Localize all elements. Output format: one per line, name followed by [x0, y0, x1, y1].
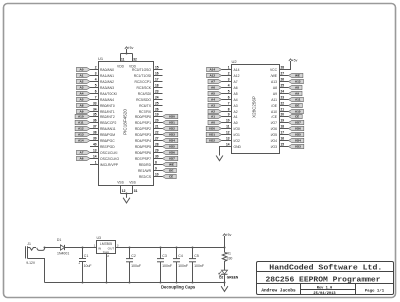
- capacitor C5 100nF: [189, 248, 204, 283]
- U1 pin 34 RB1/INT1 net A9: [77, 108, 115, 114]
- svg-text:A4: A4: [80, 92, 84, 96]
- U2 pin 15 I/O3 net I/O3: [271, 143, 304, 149]
- svg-text:RE2/CS: RE2/CS: [139, 175, 152, 179]
- svg-text:8: 8: [228, 108, 230, 112]
- svg-text:A7: A7: [211, 80, 215, 84]
- svg-text:RA5/AN4: RA5/AN4: [100, 98, 114, 102]
- svg-text:6: 6: [95, 90, 97, 94]
- U1 VSS pins 12/31 to ground: [121, 186, 138, 198]
- svg-text:28: 28: [281, 66, 285, 70]
- svg-text:GND: GND: [234, 145, 242, 149]
- U2 pin 4 A6 net A6: [208, 84, 238, 90]
- U2 pin 19 I/O7 net I/O7: [271, 119, 304, 125]
- svg-text:I/O7: I/O7: [295, 121, 301, 125]
- svg-text:C5: C5: [194, 254, 199, 258]
- svg-text:10uF: 10uF: [84, 264, 92, 268]
- title revision: [317, 286, 333, 290]
- svg-text:22: 22: [281, 102, 285, 106]
- svg-text:A4: A4: [211, 98, 215, 102]
- U1 pin 33 RB0/INT0 net A8: [77, 102, 115, 108]
- svg-text:R1: R1: [227, 251, 232, 255]
- title company name: [269, 264, 382, 272]
- note Decoupling Caps: [161, 285, 196, 290]
- IC U2 X28C256 EEPROM body: [232, 59, 280, 154]
- svg-text:A7: A7: [80, 151, 84, 155]
- svg-text:C1: C1: [84, 254, 89, 258]
- svg-text:A12: A12: [234, 74, 240, 78]
- svg-text:A9: A9: [295, 92, 299, 96]
- svg-text:I/O2: I/O2: [169, 127, 175, 131]
- svg-text:RC3/SCK: RC3/SCK: [137, 86, 152, 90]
- svg-text:I/O5: I/O5: [295, 133, 301, 137]
- svg-text:100uF: 100uF: [131, 264, 141, 268]
- U1 pin 37 RB4/AN11 net A12: [75, 125, 116, 131]
- svg-text:28C256 EEPROM Programmer: 28C256 EEPROM Programmer: [266, 277, 381, 285]
- svg-text:OE: OE: [295, 104, 299, 108]
- svg-text:39: 39: [93, 137, 97, 141]
- svg-text:29: 29: [155, 149, 159, 153]
- svg-text:A10: A10: [78, 115, 84, 119]
- svg-text:11: 11: [121, 57, 125, 61]
- svg-text:16: 16: [155, 72, 159, 76]
- ground symbol power rail: [221, 283, 228, 292]
- svg-text:I/O4: I/O4: [271, 139, 277, 143]
- svg-text:RD5/PSP5: RD5/PSP5: [135, 145, 151, 149]
- svg-text:D1: D1: [57, 238, 62, 242]
- U1 pin 28 RD5/PSP5 net I/O5: [135, 143, 178, 149]
- svg-text:19: 19: [155, 113, 159, 117]
- +5v symbol power rail: [223, 233, 232, 247]
- svg-text:A7: A7: [234, 80, 238, 84]
- U1 pin 38 RB5/PGM net A13: [75, 131, 115, 137]
- svg-text:RB7/PGD: RB7/PGD: [100, 145, 115, 149]
- svg-text:A8: A8: [273, 86, 277, 90]
- U2 pin 11 I/O0 net I/O0: [206, 125, 240, 131]
- svg-text:+5v: +5v: [292, 58, 298, 62]
- svg-text:A14: A14: [234, 68, 240, 72]
- bottom ground rail wire: [45, 282, 226, 284]
- svg-text:12: 12: [226, 131, 230, 135]
- svg-text:30: 30: [155, 155, 159, 159]
- svg-text:/CE: /CE: [271, 115, 277, 119]
- U2 pin 14 GND wire to ground: [220, 147, 232, 156]
- svg-text:4: 4: [95, 78, 97, 82]
- capacitor C2 100uF: [126, 248, 141, 283]
- +5v symbol above U2: [289, 58, 298, 62]
- svg-text:13: 13: [226, 137, 230, 141]
- U2 pin 17 I/O5 net I/O5: [271, 131, 304, 137]
- svg-text:Rev 1.0: Rev 1.0: [317, 286, 333, 290]
- svg-text:I/O1: I/O1: [234, 133, 240, 137]
- wire regulator Com to bottom rail: [106, 254, 108, 284]
- U1 pin 19 RD0/PSP0 net I/O0: [135, 113, 178, 119]
- svg-text:WE: WE: [295, 74, 300, 78]
- svg-text:3: 3: [228, 78, 230, 82]
- wire jack output to diode: [44, 247, 61, 249]
- svg-text:24: 24: [281, 90, 285, 94]
- svg-text:A11: A11: [271, 98, 277, 102]
- svg-text:RC1/T1OSI: RC1/T1OSI: [134, 74, 151, 78]
- svg-text:RB3/CCP2: RB3/CCP2: [100, 121, 116, 125]
- svg-text:A2: A2: [80, 80, 84, 84]
- svg-text:A4: A4: [234, 98, 238, 102]
- U2 pin 22 /OE net OE: [271, 102, 302, 108]
- U1 pin 39 RB6/PGC net A14: [75, 137, 115, 143]
- svg-text:5: 5: [228, 90, 230, 94]
- svg-text:A2: A2: [211, 110, 215, 114]
- svg-text:10: 10: [155, 173, 159, 177]
- svg-text:2: 2: [95, 66, 97, 70]
- svg-text:IN: IN: [98, 246, 101, 250]
- svg-text:RB4/AN11: RB4/AN11: [100, 127, 116, 131]
- svg-text:7: 7: [228, 102, 230, 106]
- svg-text:A10: A10: [271, 110, 277, 114]
- svg-text:A10: A10: [295, 110, 301, 114]
- svg-text:A9: A9: [80, 110, 84, 114]
- svg-text:A5: A5: [80, 98, 84, 102]
- svg-text:32: 32: [133, 57, 137, 61]
- svg-text:19: 19: [281, 119, 285, 123]
- svg-text:11: 11: [226, 125, 230, 129]
- svg-text:U2: U2: [232, 59, 238, 64]
- svg-text:20: 20: [281, 113, 285, 117]
- svg-text:3: 3: [95, 72, 97, 76]
- svg-text:12: 12: [122, 189, 126, 193]
- svg-text:RD0/PSP0: RD0/PSP0: [135, 115, 151, 119]
- svg-text:RA3/AN3: RA3/AN3: [100, 86, 114, 90]
- svg-text:I/O2: I/O2: [209, 139, 215, 143]
- junction C5 bottom: [192, 282, 194, 284]
- U2 pin 12 I/O1 net I/O1: [206, 131, 240, 137]
- svg-text:9: 9: [155, 167, 157, 171]
- title page: [365, 289, 385, 294]
- svg-text:OSC2/CLKO: OSC2/CLKO: [100, 157, 120, 161]
- svg-text:U3: U3: [97, 236, 102, 240]
- U2 pin 18 I/O6 net I/O6: [271, 125, 304, 131]
- U2 pin 14 GND: [226, 143, 242, 149]
- svg-text:4: 4: [228, 84, 230, 88]
- svg-text:A5: A5: [211, 92, 215, 96]
- U2 pin 10 A0 net A0: [208, 119, 238, 125]
- U2 pin 3 A7 net A7: [208, 78, 238, 84]
- U1 pin 40 RB7/PGD: [90, 143, 115, 149]
- U2 pin 9 A1 net A1: [208, 113, 238, 119]
- svg-text:RE0/RD: RE0/RD: [139, 163, 152, 167]
- svg-text:100nF: 100nF: [194, 264, 204, 268]
- capacitor C4 100nF: [173, 248, 188, 283]
- svg-text:A12: A12: [78, 127, 84, 131]
- svg-text:A14: A14: [78, 139, 84, 143]
- svg-text:RB0/INT0: RB0/INT0: [100, 104, 115, 108]
- svg-text:RD6/PSP6: RD6/PSP6: [135, 151, 151, 155]
- svg-text:6: 6: [228, 96, 230, 100]
- svg-text:RD4/PSP4: RD4/PSP4: [135, 139, 151, 143]
- svg-text:I/O4: I/O4: [295, 139, 301, 143]
- resistor R1 330: [222, 248, 232, 263]
- svg-text:RB6/PGC: RB6/PGC: [100, 139, 115, 143]
- svg-text:A2: A2: [234, 110, 238, 114]
- svg-text:A14: A14: [209, 68, 215, 72]
- U1 pin 3 RA1/AN1 net A1: [77, 72, 115, 78]
- svg-text:3: 3: [117, 243, 119, 247]
- svg-text:A0: A0: [211, 121, 215, 125]
- title author: [261, 289, 296, 294]
- svg-text:21: 21: [155, 125, 159, 129]
- U1 pin 36 RB3/CCP2 net A11: [75, 119, 116, 125]
- svg-text:U1: U1: [98, 56, 104, 61]
- U2 pin 24 A9 net A9: [273, 90, 302, 96]
- svg-text:A3: A3: [234, 104, 238, 108]
- svg-text:RA1/AN1: RA1/AN1: [100, 74, 114, 78]
- U2 pin 23 A11 net A11: [271, 96, 303, 102]
- svg-text:WE: WE: [169, 163, 174, 167]
- svg-text:17: 17: [155, 78, 159, 82]
- U1 pin 4 RA2/AN2 net A2: [77, 78, 115, 84]
- svg-text:I/O3: I/O3: [295, 145, 301, 149]
- svg-text:RC7/RX: RC7/RX: [139, 110, 152, 114]
- U2 pin 26 A13 net A13: [271, 78, 303, 84]
- svg-text:17: 17: [281, 131, 285, 135]
- U2 pin 6 A4 net A4: [208, 96, 238, 102]
- svg-text:I/O0: I/O0: [169, 115, 175, 119]
- svg-text:I/O5: I/O5: [271, 133, 277, 137]
- svg-text:8: 8: [155, 161, 157, 165]
- svg-text:I/O2: I/O2: [234, 139, 240, 143]
- svg-text:RD3/PSP3: RD3/PSP3: [135, 133, 151, 137]
- svg-text:GREEN: GREEN: [227, 275, 239, 279]
- svg-text:RD1/PSP1: RD1/PSP1: [135, 121, 151, 125]
- svg-text:+5v: +5v: [128, 46, 134, 50]
- svg-text:RD7/PSP7: RD7/PSP7: [135, 157, 151, 161]
- U1 pin 6 RA4/T0CKI net A4: [77, 90, 117, 96]
- capacitor C3 100nF: [157, 248, 172, 283]
- svg-text:7: 7: [95, 96, 97, 100]
- U2 pin 1 A14 net A14: [207, 66, 240, 72]
- svg-text:A1: A1: [211, 115, 215, 119]
- svg-text:PIC18F4520: PIC18F4520: [123, 109, 128, 135]
- U2 pin 5 A5 net A5: [208, 90, 238, 96]
- svg-text:Page 1/1: Page 1/1: [365, 289, 385, 294]
- svg-text:I/O7: I/O7: [271, 121, 277, 125]
- svg-text:37: 37: [93, 125, 97, 129]
- svg-text:A11: A11: [78, 121, 84, 125]
- svg-text:16: 16: [281, 137, 285, 141]
- svg-text:A8: A8: [80, 104, 84, 108]
- svg-text:CE: CE: [295, 115, 299, 119]
- svg-text:RC5/SDO: RC5/SDO: [136, 98, 151, 102]
- svg-text:100nF: 100nF: [162, 264, 172, 268]
- svg-text:36: 36: [93, 119, 97, 123]
- svg-text:Decoupling Caps: Decoupling Caps: [161, 285, 196, 290]
- svg-text:D2: D2: [219, 275, 223, 279]
- svg-text:1: 1: [228, 66, 230, 70]
- LED D2 GREEN: [219, 262, 239, 283]
- U1 pin 23 RC4/SDI: [138, 90, 163, 96]
- svg-text:C3: C3: [162, 254, 167, 258]
- svg-text:C2: C2: [131, 254, 136, 258]
- svg-text:100nF: 100nF: [178, 264, 188, 268]
- regulator U3 LM7805: [94, 236, 119, 258]
- svg-text:A0: A0: [80, 68, 84, 72]
- svg-text:15: 15: [155, 66, 159, 70]
- svg-text:35: 35: [93, 113, 97, 117]
- U2 pin 28 VCC wire to +5v: [280, 61, 291, 70]
- svg-text:RB2/INT2: RB2/INT2: [100, 115, 115, 119]
- svg-text:RD2/PSP2: RD2/PSP2: [135, 127, 151, 131]
- svg-text:9-12V: 9-12V: [26, 261, 36, 265]
- svg-text:RC2/CCP1: RC2/CCP1: [134, 80, 151, 84]
- svg-text:/MCLR/VPP: /MCLR/VPP: [100, 163, 119, 167]
- svg-text:I/O1: I/O1: [169, 121, 175, 125]
- svg-text:I/O6: I/O6: [295, 127, 301, 131]
- U1 pin 16 RC1/T1OSI: [134, 72, 163, 78]
- svg-text:24: 24: [155, 96, 159, 100]
- junction C3 bottom: [160, 282, 162, 284]
- svg-text:1: 1: [95, 161, 97, 165]
- U1 pin 7 RA5/AN4 net A5: [77, 96, 115, 102]
- U1 pin 24 RC5/SDO: [136, 96, 162, 102]
- U2 pin 16 I/O4 net I/O4: [271, 137, 304, 143]
- U2 pin 21 A10 net A10: [271, 108, 303, 114]
- svg-text:I/O7: I/O7: [169, 157, 175, 161]
- U1 pin 22 RD3/PSP3 net I/O3: [135, 131, 178, 137]
- svg-text:330: 330: [227, 257, 233, 261]
- svg-text:Andrew Jacobs: Andrew Jacobs: [261, 289, 296, 294]
- U1 pin 26 RC7/RX: [139, 108, 163, 114]
- svg-text:RB1/INT1: RB1/INT1: [100, 110, 115, 114]
- U1 pin 29 RD6/PSP6 net I/O6: [135, 149, 178, 155]
- svg-text:I/O6: I/O6: [169, 151, 175, 155]
- svg-text:RA4/T0CKI: RA4/T0CKI: [100, 92, 117, 96]
- svg-text:18: 18: [281, 125, 285, 129]
- svg-text:X28C256P: X28C256P: [252, 96, 257, 118]
- svg-text:A1: A1: [234, 115, 238, 119]
- svg-text:2: 2: [107, 254, 109, 258]
- svg-text:I/O5: I/O5: [169, 145, 175, 149]
- ground symbol below U1: [123, 198, 130, 203]
- title block: [257, 262, 394, 295]
- wire diode to regulator input: [65, 247, 97, 249]
- svg-text:15: 15: [281, 143, 285, 147]
- svg-text:OSC1/CLKI: OSC1/CLKI: [100, 151, 118, 155]
- capacitor C1 10uF: [78, 248, 91, 283]
- U1 pin 9 RE1/WR net OE: [138, 167, 176, 173]
- title project name: [266, 277, 381, 285]
- svg-text:RA0/AN0: RA0/AN0: [100, 68, 114, 72]
- U1 pin 21 RD2/PSP2 net I/O2: [135, 125, 178, 131]
- svg-text:RB5/PGM: RB5/PGM: [100, 133, 115, 137]
- svg-text:13: 13: [93, 149, 97, 153]
- svg-text:I/O6: I/O6: [271, 127, 277, 131]
- svg-text:C4: C4: [178, 254, 183, 258]
- svg-text:A11: A11: [295, 98, 301, 102]
- svg-text:23: 23: [155, 90, 159, 94]
- U1 pin 5 RA3/AN3 net A3: [77, 84, 115, 90]
- svg-text:18: 18: [155, 84, 159, 88]
- svg-text:2: 2: [228, 72, 230, 76]
- U2 pin 25 A8 net A8: [273, 84, 302, 90]
- svg-text:CE: CE: [169, 175, 173, 179]
- svg-text:20: 20: [155, 119, 159, 123]
- svg-text:5: 5: [95, 84, 97, 88]
- U1 pin 20 RD1/PSP1 net I/O1: [135, 119, 178, 125]
- svg-text:A13: A13: [295, 80, 301, 84]
- svg-text:I/O4: I/O4: [169, 139, 175, 143]
- svg-text:VCC: VCC: [270, 68, 278, 72]
- svg-text:A12: A12: [209, 74, 215, 78]
- svg-text:34: 34: [93, 108, 97, 112]
- connector J1 barrel jack 9-12V: [26, 242, 45, 265]
- U1 VDD pins 11/32 to +5v: [121, 46, 137, 61]
- svg-text:A13: A13: [78, 133, 84, 137]
- svg-text:14: 14: [93, 155, 97, 159]
- svg-text:A9: A9: [273, 92, 277, 96]
- svg-text:+5v: +5v: [226, 233, 232, 237]
- svg-text:33: 33: [93, 102, 97, 106]
- svg-text:27: 27: [155, 137, 159, 141]
- svg-text:21: 21: [281, 108, 285, 112]
- svg-text:I/O0: I/O0: [234, 127, 240, 131]
- svg-text:I/O1: I/O1: [209, 133, 215, 137]
- U2 pin 20 /CE net CE: [271, 113, 302, 119]
- U2 pin 7 A3 net A3: [208, 102, 238, 108]
- U1 pin 13 OSC1/CLKI net A7: [77, 149, 118, 155]
- svg-text:I/O0: I/O0: [209, 127, 215, 131]
- U2 pin 13 I/O2 net I/O2: [206, 137, 240, 143]
- svg-text:/OE: /OE: [271, 104, 278, 108]
- svg-text:A13: A13: [271, 80, 277, 84]
- svg-text:RE1/WR: RE1/WR: [138, 169, 152, 173]
- svg-text:A3: A3: [211, 104, 215, 108]
- U1 pin 10 RE2/CS net CE: [139, 173, 176, 179]
- junction C4 bottom: [176, 282, 178, 284]
- svg-text:I/O3: I/O3: [271, 145, 277, 149]
- svg-text:RC6/TX: RC6/TX: [139, 104, 152, 108]
- svg-text:I/O3: I/O3: [169, 133, 175, 137]
- ground symbol below U2: [216, 156, 223, 161]
- svg-text:VSS: VSS: [117, 180, 124, 184]
- wire regulator output 5v rail: [116, 247, 226, 249]
- svg-text:9: 9: [228, 113, 230, 117]
- svg-text:25: 25: [281, 84, 285, 88]
- U1 pin 27 RD4/PSP4 net I/O4: [135, 137, 178, 143]
- U1 pin 17 RC2/CCP1: [134, 78, 162, 84]
- svg-text:38: 38: [93, 131, 97, 135]
- svg-text:OE: OE: [169, 169, 173, 173]
- U1 pin 2 RA0/AN0 net A0: [77, 66, 115, 72]
- svg-text:10: 10: [226, 119, 230, 123]
- svg-text:1: 1: [94, 243, 96, 247]
- svg-text:A8: A8: [295, 86, 299, 90]
- U1 pin 15 RC0/T1OSO: [132, 66, 162, 72]
- U2 pin 8 A2 net A2: [208, 108, 238, 114]
- svg-text:A5: A5: [234, 92, 238, 96]
- svg-text:J1: J1: [27, 242, 31, 246]
- svg-text:27: 27: [281, 72, 285, 76]
- svg-text:HandCoded Software Ltd.: HandCoded Software Ltd.: [269, 264, 382, 272]
- svg-text:+: +: [78, 262, 80, 266]
- svg-text:/WE: /WE: [271, 74, 278, 78]
- wire jack sleeve to bottom rail: [28, 259, 45, 283]
- svg-text:26: 26: [155, 108, 159, 112]
- U1 pin 35 RB2/INT2 net A10: [75, 113, 115, 119]
- U1 pin 8 RE0/RD net WE: [139, 161, 177, 167]
- U2 pin 2 A12 net A12: [207, 72, 240, 78]
- svg-text:28: 28: [155, 143, 159, 147]
- U2 pin 27 /WE net WE: [271, 72, 303, 78]
- U1 pin 18 RC3/SCK: [137, 84, 163, 90]
- svg-text:A3: A3: [80, 86, 84, 90]
